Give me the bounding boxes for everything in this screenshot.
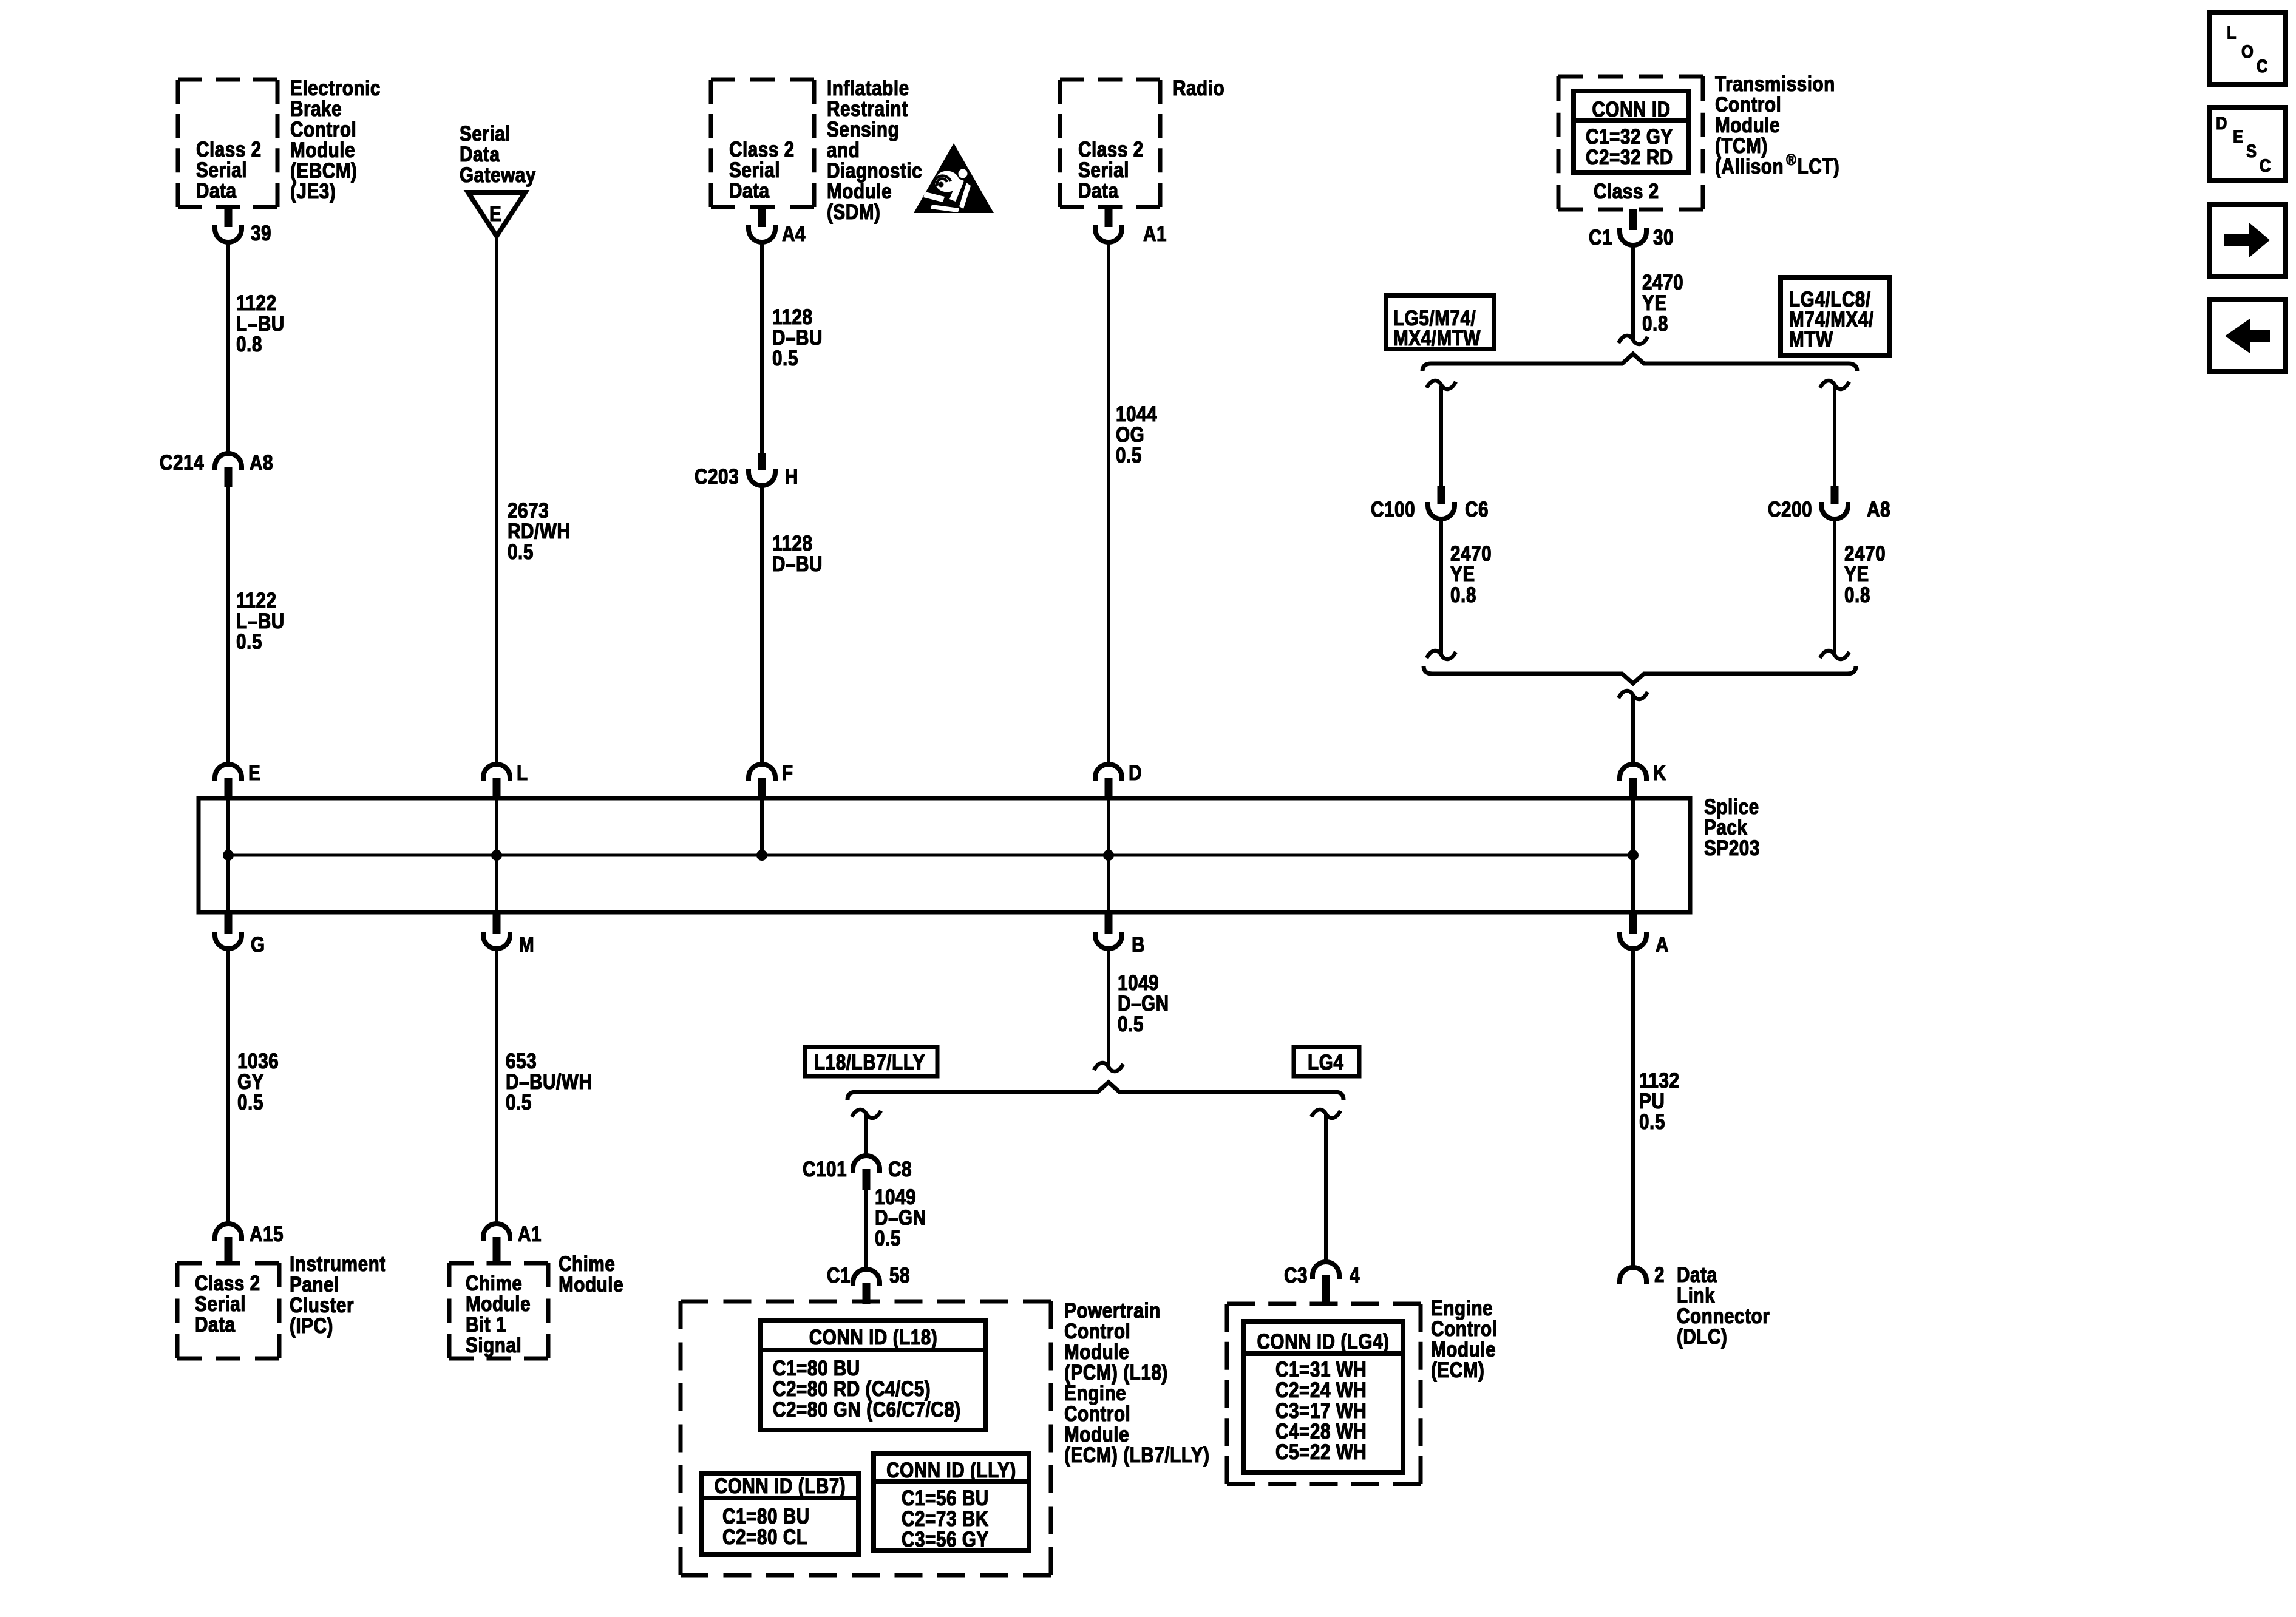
svg-text:C3=17 WH: C3=17 WH	[1275, 1399, 1367, 1423]
svg-text:Control: Control	[1715, 93, 1781, 117]
wire break below merge	[1618, 691, 1648, 699]
svg-text:PU: PU	[1639, 1090, 1665, 1113]
wire 1132 PU 0.5	[1633, 949, 1680, 1266]
svg-text:Class 2: Class 2	[1078, 138, 1144, 161]
wire 1128 D-BU 0.5	[762, 242, 823, 453]
svg-text:A8: A8	[1867, 498, 1890, 521]
pin A4 connector at SDM	[749, 207, 806, 246]
splice pack SP203 box	[199, 798, 1690, 912]
module box PCM	[681, 1301, 1051, 1575]
svg-text:0.5: 0.5	[875, 1227, 901, 1250]
wire 1049 D-GN 0.5 PCM branch	[866, 1185, 926, 1268]
svg-text:C1=31 WH: C1=31 WH	[1275, 1358, 1367, 1381]
connector C101 pin C8	[803, 1156, 912, 1190]
svg-text:CONN ID (L18): CONN ID (L18)	[809, 1326, 938, 1349]
pin C1 58 connector at PCM	[827, 1264, 910, 1304]
branch merge brace	[1424, 666, 1856, 683]
svg-text:(TCM): (TCM)	[1715, 134, 1768, 158]
wire break left branch bottom	[1427, 651, 1456, 659]
wire PCM branch to C101	[864, 1114, 868, 1154]
splice pack terminal M	[483, 912, 534, 957]
svg-text:Control: Control	[1064, 1320, 1130, 1343]
svg-text:Control: Control	[1431, 1317, 1497, 1341]
svg-text:LCT): LCT)	[1798, 155, 1840, 178]
svg-text:0.8: 0.8	[236, 333, 262, 356]
connector C203 pin H	[695, 453, 798, 489]
splice pack terminal D	[1095, 761, 1142, 799]
pin A1 connector at Radio	[1095, 207, 1167, 246]
svg-text:K: K	[1653, 761, 1666, 785]
label PCM	[1064, 1299, 1209, 1467]
svg-text:(SDM): (SDM)	[827, 200, 880, 224]
wire break ECM branch top	[1311, 1110, 1340, 1118]
svg-text:C8: C8	[888, 1158, 912, 1181]
svg-text:(EBCM): (EBCM)	[290, 159, 357, 183]
svg-text:G: G	[251, 933, 265, 957]
splice wire E-G	[226, 798, 230, 912]
svg-text:D: D	[2216, 113, 2227, 133]
svg-text:CONN ID: CONN ID	[1592, 98, 1670, 121]
svg-text:O: O	[2241, 41, 2254, 61]
wire break left branch top	[1427, 381, 1456, 389]
svg-text:RD/WH: RD/WH	[508, 520, 570, 543]
engine split brace	[847, 1082, 1343, 1100]
connector C100 pin C6	[1371, 486, 1489, 521]
svg-text:(DLC): (DLC)	[1677, 1325, 1727, 1349]
svg-text:A4: A4	[782, 222, 806, 246]
svg-text:Link: Link	[1677, 1284, 1716, 1307]
splice pack terminal A	[1620, 912, 1669, 957]
wire left branch to C100	[1439, 386, 1443, 486]
svg-text:Powertrain: Powertrain	[1064, 1299, 1161, 1323]
splice wire K-A	[1631, 798, 1635, 912]
wire break right branch bottom	[1820, 651, 1849, 659]
svg-text:Data: Data	[1078, 179, 1119, 203]
svg-text:L–BU: L–BU	[236, 609, 285, 633]
svg-text:Data: Data	[196, 179, 237, 203]
svg-text:Module: Module	[559, 1273, 623, 1297]
svg-text:A15: A15	[250, 1222, 284, 1246]
svg-text:Restraint: Restraint	[827, 97, 908, 121]
engine option box L18/LB7/LLY	[805, 1047, 937, 1076]
pin 2 connector at DLC	[1620, 1263, 1665, 1287]
svg-text:LG4: LG4	[1308, 1051, 1343, 1074]
svg-text:Module: Module	[1064, 1340, 1129, 1364]
svg-text:L: L	[517, 761, 528, 785]
svg-text:D–BU/WH: D–BU/WH	[506, 1070, 592, 1094]
svg-text:(PCM) (L18): (PCM) (L18)	[1064, 1361, 1168, 1385]
svg-text:Serial: Serial	[460, 122, 511, 146]
wire break above engine split	[1094, 1063, 1123, 1071]
svg-text:Data: Data	[1677, 1263, 1717, 1287]
splice pack terminal G	[215, 912, 265, 957]
svg-text:Module: Module	[1064, 1423, 1129, 1446]
svg-text:C3=56 GY: C3=56 GY	[902, 1528, 989, 1551]
legend box LOC	[2209, 12, 2285, 84]
svg-text:(Allison: (Allison	[1715, 155, 1784, 178]
svg-text:YE: YE	[1844, 563, 1869, 586]
svg-text:Chime: Chime	[559, 1252, 615, 1276]
svg-text:Control: Control	[1064, 1402, 1130, 1426]
svg-text:C2=80 GN (C6/C7/C8): C2=80 GN (C6/C7/C8)	[773, 1398, 961, 1422]
svg-text:Bit 1: Bit 1	[466, 1313, 506, 1337]
svg-text:1122: 1122	[236, 589, 277, 612]
wire 2470 YE 0.8 right branch	[1835, 519, 1886, 654]
svg-text:Class 2: Class 2	[1594, 180, 1659, 203]
svg-text:2470: 2470	[1450, 542, 1492, 566]
svg-text:C3: C3	[1284, 1264, 1308, 1287]
svg-text:E: E	[248, 761, 260, 785]
svg-text:C203: C203	[695, 465, 739, 489]
svg-text:C101: C101	[803, 1158, 847, 1181]
svg-text:Serial: Serial	[196, 158, 247, 182]
svg-text:0.5: 0.5	[1639, 1110, 1665, 1134]
pin A1 connector at Chime Module	[483, 1222, 542, 1263]
svg-text:0.5: 0.5	[237, 1091, 263, 1114]
junction node E	[223, 850, 234, 861]
svg-text:CONN ID (LB7): CONN ID (LB7)	[715, 1474, 846, 1498]
wire merge to splice K	[1631, 696, 1635, 764]
wire ECM branch to C3	[1324, 1114, 1328, 1261]
svg-text:C2=80 CL: C2=80 CL	[722, 1525, 807, 1549]
connector C214 pin A8	[160, 451, 273, 487]
svg-text:D–BU: D–BU	[772, 552, 823, 576]
pin 39 connector at EBCM	[215, 207, 271, 245]
splice wire F	[760, 798, 764, 855]
engine option box LG5/M74/MX4/MTW	[1386, 296, 1494, 350]
svg-text:653: 653	[506, 1049, 537, 1073]
svg-text:30: 30	[1653, 226, 1674, 249]
svg-text:39: 39	[251, 222, 271, 245]
splice pack terminal B	[1095, 912, 1145, 957]
svg-text:A1: A1	[518, 1222, 542, 1246]
svg-text:Module: Module	[466, 1292, 531, 1316]
pin C3 4 connector at ECM	[1284, 1262, 1360, 1305]
svg-text:Panel: Panel	[290, 1273, 339, 1297]
branch split brace	[1422, 354, 1857, 371]
svg-text:0.8: 0.8	[1844, 583, 1870, 607]
svg-text:2: 2	[1654, 1263, 1665, 1287]
label Splice Pack SP203	[1704, 795, 1760, 860]
svg-text:Serial: Serial	[195, 1292, 246, 1316]
svg-text:1122: 1122	[236, 291, 277, 315]
svg-text:Control: Control	[290, 118, 356, 141]
junction node D	[1103, 850, 1114, 861]
airbag warning icon	[914, 143, 994, 213]
svg-text:2470: 2470	[1642, 271, 1683, 294]
svg-text:Data: Data	[195, 1313, 236, 1337]
splice pack bus line	[228, 854, 1633, 857]
svg-text:1128: 1128	[772, 305, 813, 329]
svg-text:Data: Data	[729, 179, 770, 203]
svg-text:Module: Module	[290, 138, 355, 162]
CONN ID table TCM	[1574, 91, 1689, 172]
svg-text:C6: C6	[1465, 498, 1489, 521]
CONN ID (LLY) table	[874, 1454, 1029, 1551]
svg-text:and: and	[827, 138, 860, 162]
svg-text:C1: C1	[1589, 226, 1612, 249]
label Chime Module	[559, 1252, 623, 1297]
splice pack terminal E	[215, 761, 260, 799]
svg-text:Class 2: Class 2	[195, 1272, 260, 1295]
svg-text:Gateway: Gateway	[460, 163, 536, 187]
svg-text:4: 4	[1350, 1264, 1360, 1287]
wire 1128 D-BU	[762, 486, 823, 764]
svg-text:®: ®	[1786, 151, 1796, 169]
svg-text:E: E	[489, 202, 501, 226]
gateway triangle symbol E	[468, 192, 525, 236]
wire break symbol above branch split	[1618, 336, 1648, 344]
junction node L	[491, 850, 502, 861]
svg-text:Instrument: Instrument	[290, 1252, 386, 1276]
module box EBCM (Electronic Brake Control Module)	[178, 80, 277, 207]
splice pack terminal K	[1620, 761, 1666, 799]
wire 1049 D-GN 0.5	[1109, 949, 1169, 1066]
svg-text:0.8: 0.8	[1642, 312, 1668, 336]
module box TCM (Transmission Control Module)	[1558, 76, 1703, 209]
svg-text:Serial: Serial	[1078, 158, 1129, 182]
svg-text:2470: 2470	[1844, 542, 1886, 566]
label Data Link Connector DLC	[1677, 1263, 1770, 1349]
svg-text:C214: C214	[160, 451, 204, 475]
wire break right branch top	[1820, 381, 1849, 389]
svg-text:1128: 1128	[772, 532, 813, 555]
splice wire L-M	[495, 798, 498, 912]
svg-text:(ECM) (LB7/LLY): (ECM) (LB7/LLY)	[1064, 1443, 1209, 1467]
connector C200 pin A8	[1768, 486, 1890, 521]
svg-text:C: C	[2257, 56, 2268, 76]
label Serial Data Gateway	[460, 122, 536, 187]
wire 1036 GY 0.5	[228, 949, 279, 1222]
svg-text:C1=80 BU: C1=80 BU	[722, 1505, 810, 1528]
svg-text:C: C	[2260, 155, 2271, 175]
svg-text:SP203: SP203	[1704, 836, 1760, 860]
svg-text:Engine: Engine	[1431, 1297, 1493, 1320]
svg-text:C4=28 WH: C4=28 WH	[1275, 1420, 1367, 1443]
svg-text:E: E	[2233, 126, 2244, 146]
svg-text:(JE3): (JE3)	[290, 180, 336, 203]
svg-text:D–GN: D–GN	[875, 1206, 926, 1230]
svg-text:0.5: 0.5	[1116, 444, 1142, 467]
svg-text:A8: A8	[250, 451, 273, 475]
wire 2470 YE 0.8 from TCM	[1633, 245, 1683, 339]
svg-text:1132: 1132	[1639, 1069, 1680, 1093]
wire 1122 L-BU 0.8	[228, 242, 285, 453]
svg-text:Brake: Brake	[290, 97, 342, 121]
svg-text:Class 2: Class 2	[729, 138, 795, 161]
wire 1122 L-BU 0.5	[228, 487, 285, 764]
svg-text:C2=32 RD: C2=32 RD	[1586, 146, 1673, 169]
svg-text:A: A	[1656, 933, 1669, 957]
svg-text:2673: 2673	[508, 499, 549, 523]
svg-text:0.5: 0.5	[1118, 1012, 1144, 1036]
svg-text:Engine: Engine	[1064, 1381, 1126, 1405]
svg-text:Signal: Signal	[466, 1334, 521, 1357]
svg-text:Electronic: Electronic	[290, 76, 381, 100]
splice wire D-B	[1107, 798, 1110, 912]
wire 653 D-BU/WH 0.5	[497, 949, 592, 1222]
svg-text:L18/LB7/LLY: L18/LB7/LLY	[814, 1051, 925, 1074]
svg-text:M: M	[519, 933, 534, 957]
svg-text:0.8: 0.8	[1450, 583, 1476, 607]
svg-text:Module: Module	[1715, 114, 1780, 137]
svg-text:Serial: Serial	[729, 158, 780, 182]
label Class 2 TCM	[1594, 180, 1659, 203]
svg-text:1049: 1049	[875, 1185, 916, 1209]
svg-text:1044: 1044	[1116, 402, 1157, 426]
svg-text:Module: Module	[1431, 1338, 1496, 1361]
svg-text:Transmission: Transmission	[1715, 72, 1835, 96]
junction node K	[1628, 850, 1639, 861]
CONN ID (L18) table	[761, 1321, 986, 1430]
svg-text:C2=80 RD (C4/C5): C2=80 RD (C4/C5)	[773, 1377, 931, 1401]
svg-text:0.5: 0.5	[772, 347, 798, 370]
svg-text:MTW: MTW	[1789, 328, 1833, 351]
module box IPC (Instrument Panel Cluster)	[177, 1263, 279, 1358]
svg-text:D–BU: D–BU	[772, 326, 823, 350]
wire 2673 RD/WH 0.5	[497, 236, 570, 764]
pin A15 connector at IPC	[215, 1222, 284, 1263]
svg-text:D: D	[1129, 761, 1142, 785]
svg-text:L: L	[2227, 22, 2237, 42]
module box Chime Module	[449, 1263, 548, 1358]
wire 1044 OG 0.5	[1109, 242, 1157, 764]
svg-text:(IPC): (IPC)	[290, 1314, 333, 1338]
engine option box LG4/LC8/M74/MX4/MTW	[1781, 277, 1889, 356]
svg-text:0.5: 0.5	[236, 630, 262, 654]
module box SDM (Inflatable Restraint Sensing and Diagnostic Module)	[711, 80, 814, 207]
module box ECM LG4	[1227, 1304, 1421, 1484]
engine option box LG4	[1294, 1047, 1359, 1076]
label IPC	[290, 1252, 386, 1338]
svg-text:C1: C1	[827, 1264, 851, 1287]
svg-text:A1: A1	[1143, 222, 1167, 246]
svg-text:CONN ID (LLY): CONN ID (LLY)	[886, 1459, 1016, 1482]
svg-text:C1=80 BU: C1=80 BU	[773, 1357, 860, 1380]
splice pack terminal L	[483, 761, 528, 799]
svg-text:L–BU: L–BU	[236, 312, 285, 336]
wire 2470 YE 0.8 left branch	[1441, 519, 1492, 654]
svg-text:YE: YE	[1642, 291, 1667, 315]
wire break PCM branch top	[852, 1110, 881, 1118]
svg-text:OG: OG	[1116, 423, 1144, 447]
svg-text:58: 58	[889, 1264, 910, 1287]
svg-text:Inflatable: Inflatable	[827, 76, 909, 100]
svg-text:1049: 1049	[1118, 971, 1159, 995]
svg-text:0.5: 0.5	[506, 1091, 532, 1114]
svg-text:C2=24 WH: C2=24 WH	[1275, 1378, 1367, 1402]
svg-text:1036: 1036	[237, 1049, 279, 1073]
label EBCM	[290, 76, 381, 203]
svg-text:C1=56 BU: C1=56 BU	[902, 1486, 989, 1510]
junction node F	[756, 850, 767, 861]
svg-text:Chime: Chime	[466, 1272, 522, 1295]
label Radio	[1173, 76, 1224, 100]
svg-text:S: S	[2246, 141, 2257, 161]
CONN ID (LG4) table	[1243, 1321, 1403, 1473]
svg-text:C100: C100	[1371, 498, 1415, 521]
svg-text:C5=22 WH: C5=22 WH	[1275, 1440, 1367, 1464]
svg-text:H: H	[785, 465, 798, 489]
svg-text:Radio: Radio	[1173, 76, 1224, 100]
splice pack terminal F	[749, 761, 793, 799]
svg-text:0.5: 0.5	[508, 540, 534, 564]
svg-text:Sensing: Sensing	[827, 118, 899, 141]
svg-text:Class 2: Class 2	[196, 138, 262, 161]
wire right branch to C200	[1833, 386, 1836, 486]
svg-text:C1=32 GY: C1=32 GY	[1586, 125, 1673, 149]
svg-text:F: F	[782, 761, 793, 785]
pin C1 30 connector at TCM	[1589, 209, 1674, 249]
svg-text:Splice: Splice	[1704, 795, 1759, 819]
label SDM	[827, 76, 922, 224]
svg-text:Connector: Connector	[1677, 1304, 1770, 1328]
svg-text:YE: YE	[1450, 563, 1475, 586]
svg-text:C2=73 BK: C2=73 BK	[902, 1507, 989, 1531]
label TCM	[1715, 72, 1839, 178]
svg-text:Pack: Pack	[1704, 816, 1748, 839]
svg-text:Cluster: Cluster	[290, 1293, 354, 1317]
label ECM	[1431, 1297, 1497, 1382]
svg-text:C200: C200	[1768, 498, 1812, 521]
svg-text:B: B	[1132, 933, 1145, 957]
svg-text:GY: GY	[237, 1070, 264, 1094]
module box Radio	[1060, 80, 1160, 207]
svg-text:(ECM): (ECM)	[1431, 1358, 1484, 1382]
svg-text:Module: Module	[827, 180, 892, 203]
svg-text:Data: Data	[460, 143, 500, 166]
legend box next arrow	[2209, 205, 2286, 276]
legend box previous arrow	[2209, 300, 2286, 371]
svg-text:MX4/MTW: MX4/MTW	[1393, 327, 1481, 350]
CONN ID (LB7) table	[702, 1473, 858, 1554]
svg-text:D–GN: D–GN	[1118, 992, 1169, 1015]
svg-text:CONN ID (LG4): CONN ID (LG4)	[1257, 1330, 1389, 1354]
svg-text:Diagnostic: Diagnostic	[827, 159, 922, 183]
legend box DESC	[2209, 107, 2285, 180]
